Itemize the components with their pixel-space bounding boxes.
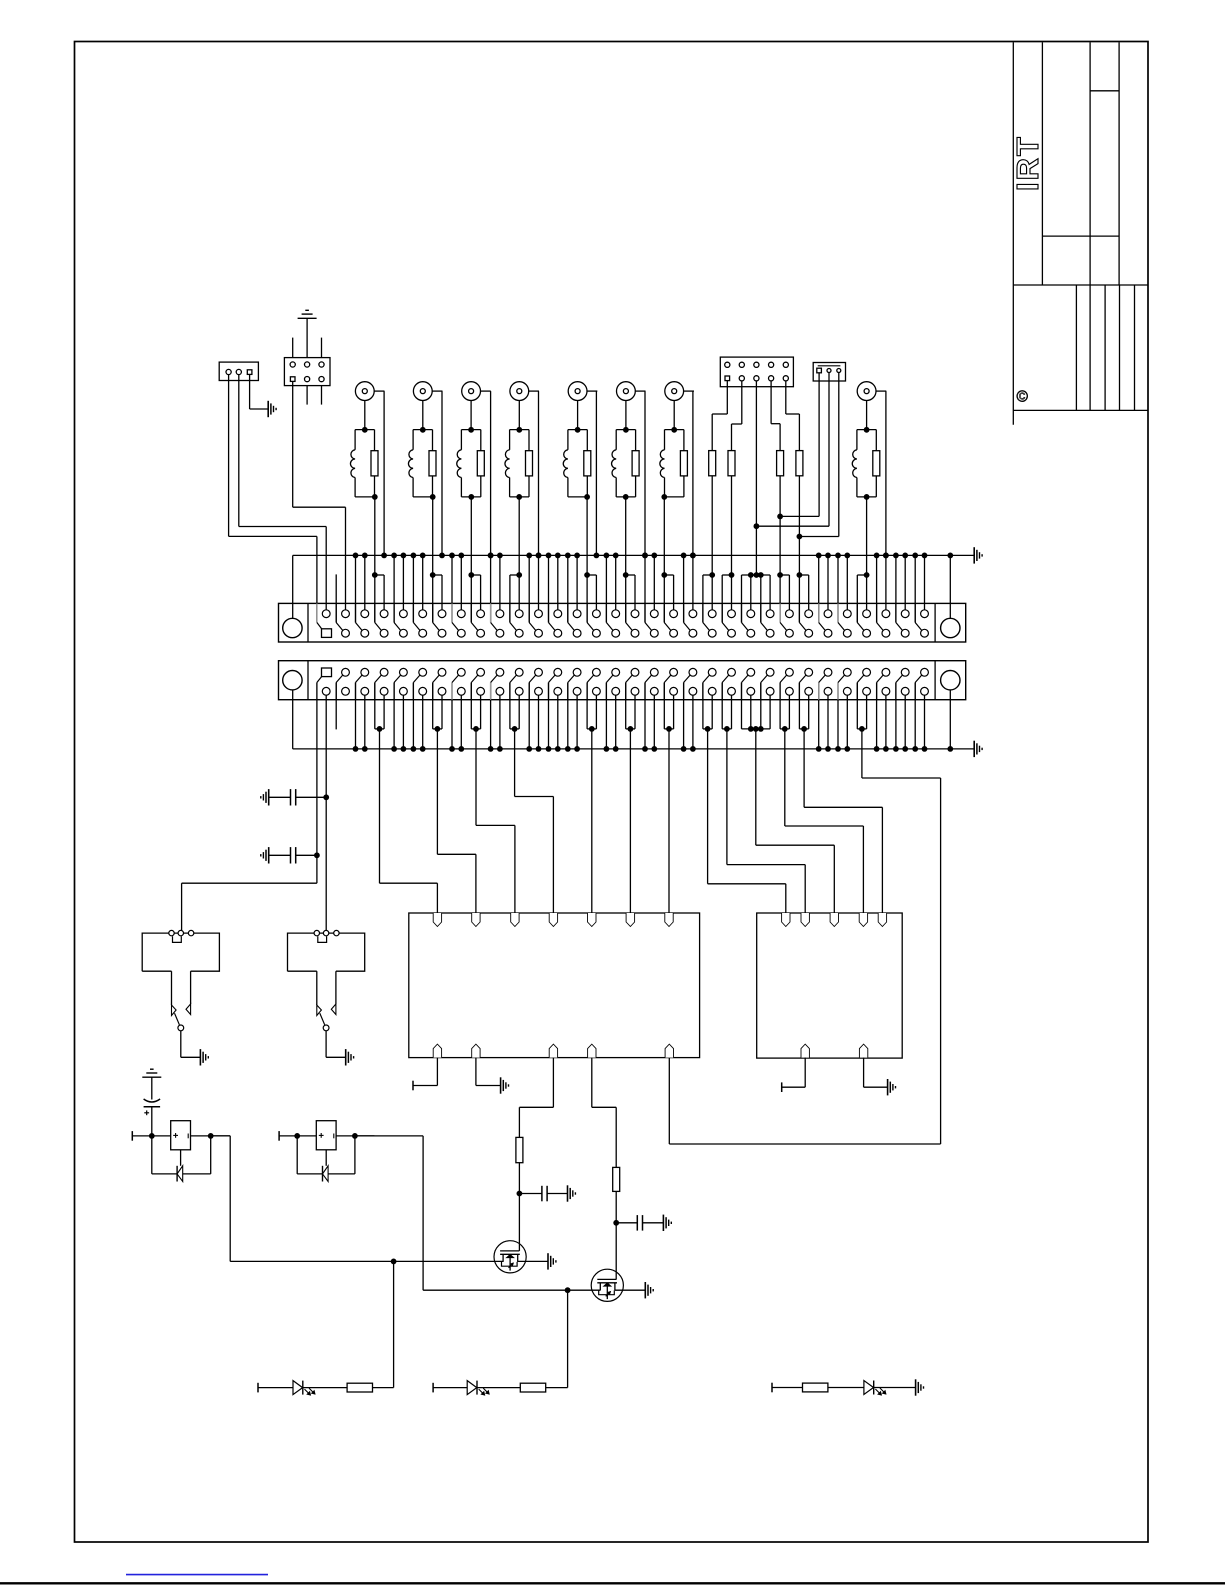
svg-text:IRT: IRT bbox=[1010, 135, 1045, 191]
svg-text:©: © bbox=[1016, 389, 1028, 406]
